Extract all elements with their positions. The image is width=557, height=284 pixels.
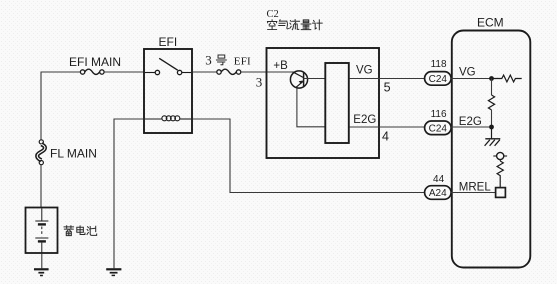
svg-text:EFI: EFI [234,56,251,68]
wire VG inside ECM [451,78,492,80]
label 空气流量计 (air flow meter) [267,20,276,30]
wire transistor emitter to sensing element [297,88,325,127]
resistor (MREL pull-up, vertical) [497,161,503,187]
label battery 蓄电池 [64,226,74,236]
svg-text:E2G: E2G [459,116,482,128]
svg-text:118: 118 [431,59,447,70]
wire transistor collector to sensing element [304,78,325,80]
svg-text:+B: +B [273,60,288,72]
wire fuse EFI MAIN to relay [104,71,143,73]
wire fuse 3 EFI to air flow meter [241,71,266,73]
battery [26,208,58,254]
svg-text:VG: VG [356,65,373,77]
svg-text:44: 44 [433,174,445,185]
svg-text:MREL: MREL [459,181,492,193]
wire E2G inside ECM [451,126,492,128]
label fuse 3 号 EFI [205,53,251,68]
svg-text:A24: A24 [429,188,447,199]
wire B+ to fuse EFI MAIN [41,71,81,73]
svg-text:C24: C24 [429,123,448,134]
svg-text:4: 4 [382,129,389,143]
fuse EFI MAIN [80,69,104,74]
svg-text:EFI MAIN: EFI MAIN [69,55,121,69]
wire relay coil to MREL (A24) [193,119,425,193]
relay contact (switch) [145,58,191,74]
connector C24 pin 118 (VG) [425,72,452,86]
node VG junction [489,76,494,81]
air flow meter box C2 [267,48,380,158]
svg-text:EFI: EFI [159,35,178,49]
svg-text:E2G: E2G [353,114,376,126]
svg-text:FL MAIN: FL MAIN [50,146,97,160]
ECM box [452,31,531,268]
connector A24 pin 44 (MREL) [425,186,452,200]
transistor (power control, air flow meter) [290,71,307,88]
resistor (VG to E2G, vertical) [488,95,494,110]
wire battery B+ feed (vertical, top section) [40,73,42,140]
wire battery negative to ground [41,254,43,269]
wire resistor to E2G node [491,110,493,127]
connector C24 pin 116 (E2G) [425,121,452,135]
sensing element (inner block) [325,63,349,143]
relay coil [145,116,191,121]
relay EFI box [144,49,192,133]
wire VG node down to resistor [491,79,493,96]
MREL driver (square) [496,188,506,198]
wire +B to transistor [268,71,293,73]
svg-text:3: 3 [256,75,262,90]
chassis ground (ECM internal) [485,127,501,146]
wire VG out [350,78,425,80]
svg-text:ECM: ECM [477,16,504,30]
svg-text:C2: C2 [267,9,279,20]
svg-text:5: 5 [384,81,391,95]
svg-text:116: 116 [431,109,447,120]
internal power node (circle) [493,152,507,161]
wire relay to fuse 3 EFI [193,71,217,73]
svg-text:3: 3 [205,53,212,68]
ground (battery) [34,269,49,275]
fuse 3 EFI [217,69,241,74]
fusible link FL MAIN [37,140,45,165]
node E2G junction [489,125,494,130]
wire relay coil to ground [114,119,144,268]
battery cells [35,209,48,253]
wire E2G out [350,126,425,128]
svg-text:VG: VG [459,67,476,79]
wire FL MAIN to battery [40,165,42,207]
resistor (VG pull-up, horizontal) [492,75,522,82]
wire MREL inside ECM [451,192,496,194]
ground (relay coil) [106,269,121,275]
svg-text:C24: C24 [429,74,448,85]
